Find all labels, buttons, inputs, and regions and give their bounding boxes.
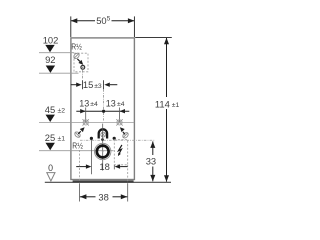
arch inner circle xyxy=(101,132,106,137)
ref line water xyxy=(91,140,93,174)
fixing point right xyxy=(116,119,122,125)
floor line xyxy=(45,181,171,183)
outlet vertical centerline xyxy=(102,124,104,171)
module outline xyxy=(71,38,134,180)
screw right xyxy=(121,131,129,139)
dim 15+-3 xyxy=(71,80,118,89)
screw icon top xyxy=(72,52,80,60)
dim 50.5 label xyxy=(96,15,111,26)
outlet circle xyxy=(95,143,111,159)
svg-text:13: 13 xyxy=(79,98,89,108)
dim 50.5 top xyxy=(71,16,135,37)
level 45+-2 xyxy=(39,104,134,123)
dim 38 line xyxy=(80,194,127,199)
svg-text:±2: ±2 xyxy=(58,108,66,115)
svg-text:25: 25 xyxy=(45,132,55,143)
dashed box water supply top xyxy=(74,53,88,72)
svg-text:0: 0 xyxy=(48,163,53,173)
svg-text:±4: ±4 xyxy=(90,101,98,108)
electrical box left ext xyxy=(113,165,115,170)
svg-text:18: 18 xyxy=(99,161,109,172)
level 0 xyxy=(47,163,55,181)
svg-text:114: 114 xyxy=(155,98,170,109)
svg-text:±3: ±3 xyxy=(94,83,102,90)
junction dot flush pipe xyxy=(101,138,104,141)
level 102 xyxy=(39,34,74,52)
lightning bolt xyxy=(118,145,122,156)
dim 13 line xyxy=(76,109,129,113)
level 92 xyxy=(39,54,79,73)
arrow to fixing left xyxy=(78,127,84,134)
svg-text:38: 38 xyxy=(98,192,108,203)
dim 13+-4 left label xyxy=(79,98,98,108)
dim 33 right xyxy=(150,141,155,181)
svg-text:R½: R½ xyxy=(72,141,83,150)
electrical dashed box xyxy=(114,140,127,165)
electrical box right ext dashed xyxy=(127,165,129,183)
svg-text:13: 13 xyxy=(106,98,116,108)
level 25+-1 xyxy=(39,132,114,151)
junction dot water xyxy=(90,137,93,140)
dash-dot line 33 level xyxy=(80,139,154,141)
svg-text:15: 15 xyxy=(83,79,93,90)
svg-text:102: 102 xyxy=(43,34,59,45)
ext line fixing right xyxy=(119,108,121,123)
dim 38 ext dashed left xyxy=(79,150,81,183)
ext line fixing left xyxy=(85,108,87,123)
supply centerline xyxy=(81,70,83,80)
svg-text:±1: ±1 xyxy=(172,102,180,109)
fixing point left xyxy=(83,119,89,125)
junction dot electrical xyxy=(113,137,116,140)
svg-text:±4: ±4 xyxy=(117,101,125,108)
svg-text:R½: R½ xyxy=(71,43,82,52)
base plinth band xyxy=(73,180,134,182)
svg-text:5: 5 xyxy=(107,16,111,23)
arrow to supply connection xyxy=(77,59,83,65)
svg-text:92: 92 xyxy=(45,54,55,65)
dim 114 label xyxy=(155,98,180,109)
svg-text:33: 33 xyxy=(146,156,156,167)
flush bend arch xyxy=(99,129,107,138)
screw left xyxy=(73,130,81,138)
svg-text:45: 45 xyxy=(45,104,55,115)
dim 15 label xyxy=(83,79,102,90)
dim 38 ext solid left xyxy=(79,183,81,201)
supply connection circle xyxy=(81,65,85,69)
svg-text:±1: ±1 xyxy=(58,136,66,143)
center dash line xyxy=(103,89,105,120)
arrow to fixing right xyxy=(120,127,125,134)
dim 18 xyxy=(76,164,127,168)
dim 13+-4 right label xyxy=(106,98,125,108)
dim 38 ext solid right xyxy=(127,183,129,201)
dim 114+-1 right xyxy=(135,37,172,181)
svg-text:50: 50 xyxy=(96,15,106,26)
